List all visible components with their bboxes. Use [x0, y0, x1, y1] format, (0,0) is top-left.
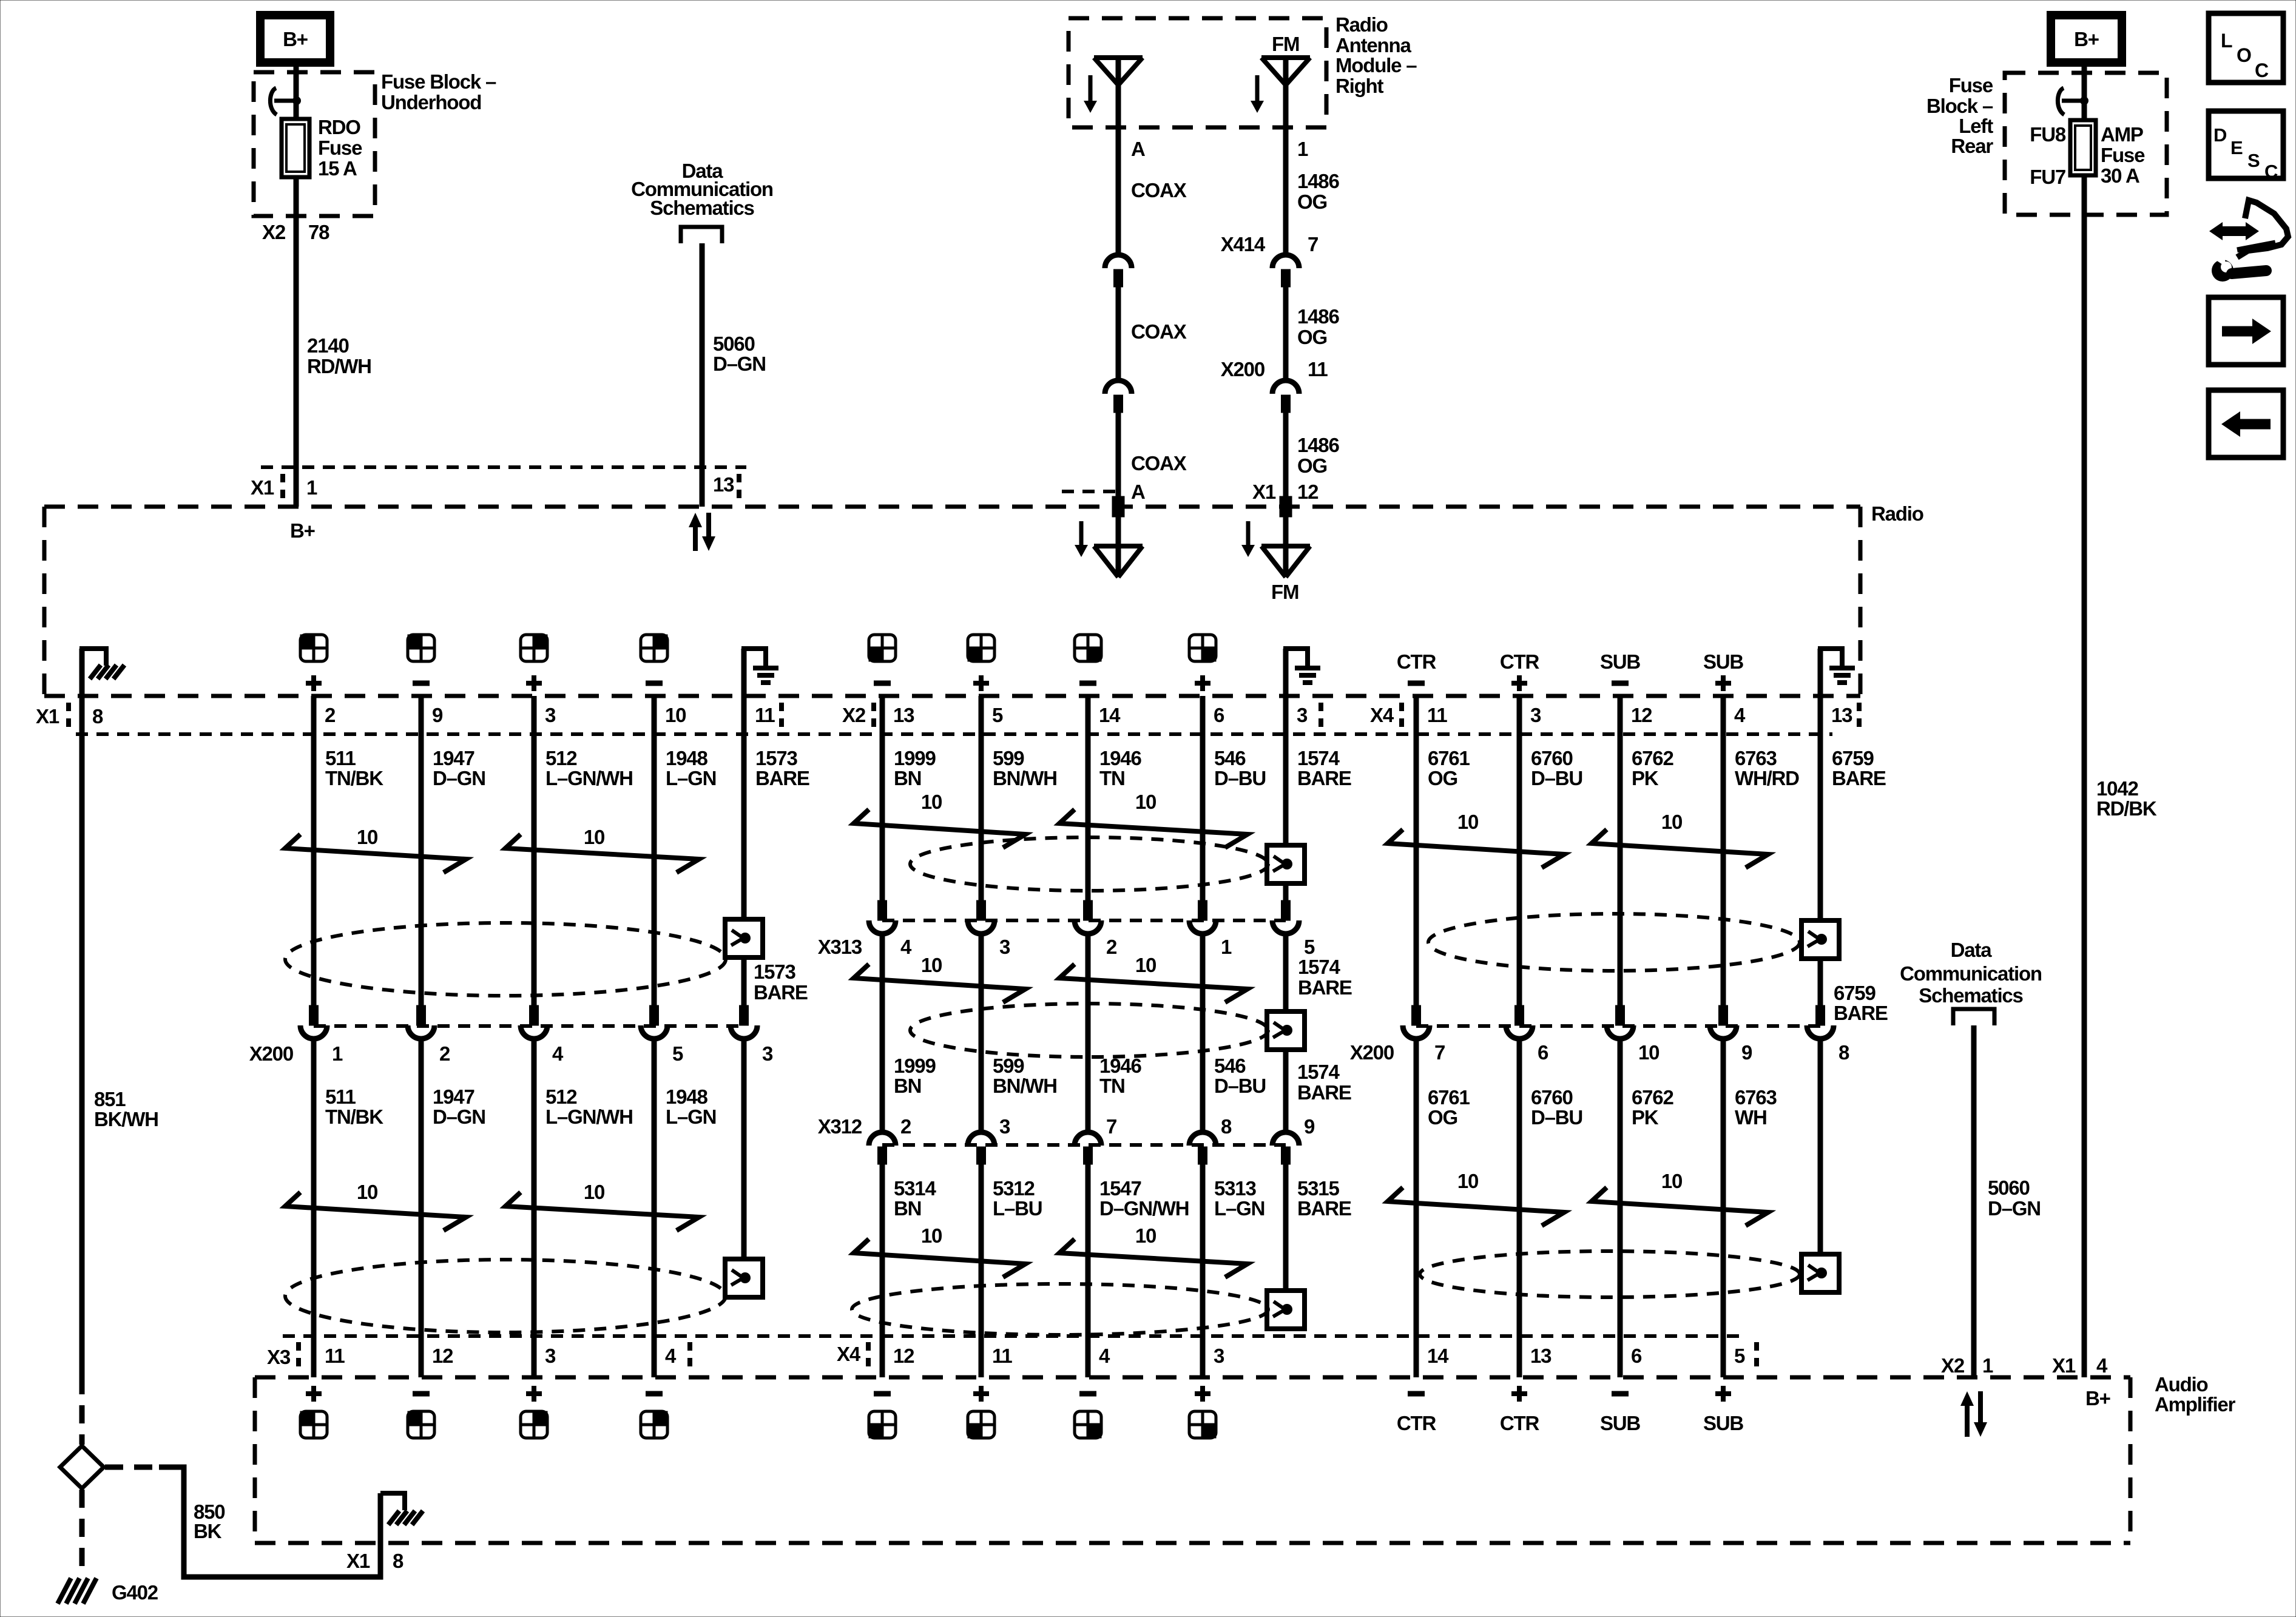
svg-text:Left: Left: [1959, 115, 1993, 137]
svg-text:3: 3: [999, 936, 1010, 958]
left group wires lower: [311, 1039, 317, 1377]
svg-text:Radio: Radio: [1335, 13, 1388, 36]
svg-text:10: 10: [1457, 811, 1478, 833]
svg-text:BARE: BARE: [1298, 976, 1352, 999]
svg-text:B+: B+: [290, 519, 315, 542]
svg-text:L–BU: L–BU: [993, 1197, 1042, 1220]
svg-text:PK: PK: [1632, 1106, 1659, 1129]
svg-text:1486: 1486: [1297, 434, 1339, 456]
svg-text:BARE: BARE: [1297, 1197, 1351, 1220]
svg-text:511: 511: [325, 747, 356, 769]
svg-text:Schematics: Schematics: [1919, 984, 2022, 1007]
svg-text:10: 10: [1638, 1041, 1659, 1064]
svg-text:12: 12: [1631, 704, 1652, 726]
svg-text:3: 3: [545, 1345, 556, 1367]
svg-text:SUB: SUB: [1600, 650, 1640, 673]
svg-text:CTR: CTR: [1397, 1412, 1437, 1434]
svg-text:10: 10: [665, 704, 686, 726]
wire B+ to RDO fuse: [294, 62, 299, 119]
svg-text:COAX: COAX: [1131, 320, 1187, 343]
shield lens middle lower: [852, 1284, 1268, 1335]
entry pin bars: [1112, 496, 1124, 517]
svg-text:4: 4: [900, 936, 912, 958]
svg-text:BN/WH: BN/WH: [993, 1075, 1057, 1097]
shield lens middle mid: [910, 1004, 1268, 1057]
middle group wires lower: [880, 1164, 885, 1377]
wire 1042 RD/BK: [2082, 175, 2087, 1377]
svg-text:BN: BN: [894, 767, 921, 789]
svg-text:6760: 6760: [1531, 1086, 1573, 1109]
ground earth radio pin11: [741, 649, 747, 696]
svg-text:6760: 6760: [1531, 747, 1573, 769]
connector row X200 left: [309, 1005, 319, 1025]
module arrow right: [1255, 75, 1260, 102]
svg-text:D–BU: D–BU: [1531, 1106, 1582, 1129]
svg-text:D–BU: D–BU: [1214, 767, 1266, 789]
svg-text:9: 9: [1304, 1115, 1315, 1138]
svg-text:C: C: [2264, 161, 2278, 182]
svg-text:6761: 6761: [1428, 747, 1470, 769]
svg-text:OG: OG: [1297, 191, 1327, 213]
svg-text:511: 511: [325, 1085, 356, 1108]
svg-text:X1: X1: [36, 705, 59, 727]
svg-text:5060: 5060: [1988, 1176, 2030, 1199]
svg-text:10: 10: [584, 826, 604, 848]
svg-text:10: 10: [1135, 954, 1156, 976]
svg-text:Audio: Audio: [2155, 1373, 2208, 1396]
svg-text:5: 5: [1734, 1345, 1745, 1367]
svg-text:4: 4: [1099, 1345, 1110, 1367]
svg-text:15 A: 15 A: [318, 157, 357, 180]
bus bracket symbol: [681, 227, 722, 243]
svg-text:1948: 1948: [666, 1085, 707, 1108]
svg-text:D–BU: D–BU: [1214, 1075, 1266, 1097]
ground earth radio pin13: [1818, 649, 1823, 696]
svg-text:1947: 1947: [433, 747, 474, 769]
right group wires upper: [1414, 696, 1419, 1005]
svg-text:10: 10: [921, 954, 942, 976]
audio amplifier box outline: [255, 1376, 2130, 1380]
svg-text:AMP: AMP: [2101, 123, 2143, 146]
svg-text:14: 14: [1427, 1345, 1449, 1367]
svg-text:5314: 5314: [894, 1177, 936, 1200]
connector row X313: [878, 900, 887, 920]
svg-text:D–BU: D–BU: [1531, 767, 1582, 789]
svg-text:851: 851: [94, 1088, 126, 1110]
radio arrow FM: [1246, 521, 1251, 546]
svg-text:X1: X1: [251, 476, 274, 499]
svg-text:B+: B+: [2085, 1387, 2110, 1409]
svg-text:1573: 1573: [755, 747, 797, 769]
svg-text:BARE: BARE: [1832, 767, 1886, 789]
svg-text:5: 5: [672, 1042, 683, 1065]
svg-text:D–GN: D–GN: [433, 767, 485, 789]
svg-text:Fuse: Fuse: [2101, 144, 2145, 166]
wire diamond to G402: [79, 1490, 85, 1573]
coax wire FM upper: [1283, 58, 1289, 255]
svg-text:5315: 5315: [1297, 1177, 1339, 1200]
shield box right upper: [1801, 920, 1839, 959]
svg-text:L–GN/WH: L–GN/WH: [545, 767, 633, 789]
icon harness wrench: [2219, 226, 2249, 236]
svg-text:7: 7: [1106, 1115, 1116, 1138]
svg-text:6763: 6763: [1735, 747, 1777, 769]
shield box right lower (terminal): [1801, 1254, 1839, 1292]
fuse block left rear box: [2005, 73, 2167, 215]
svg-text:Schematics: Schematics: [650, 197, 754, 219]
svg-text:11: 11: [1427, 704, 1447, 726]
svg-text:WH: WH: [1735, 1106, 1767, 1129]
shield box middle upper: [1267, 845, 1305, 883]
svg-text:11: 11: [992, 1345, 1012, 1367]
svg-text:1947: 1947: [433, 1085, 474, 1108]
svg-text:BK: BK: [194, 1520, 222, 1542]
svg-text:546: 546: [1214, 1055, 1246, 1077]
twisted pair symbols middle upper: [854, 809, 1025, 848]
svg-text:BN: BN: [894, 1197, 921, 1220]
svg-text:11: 11: [325, 1345, 345, 1367]
svg-text:X4: X4: [1370, 704, 1394, 726]
twisted pair symbols left upper: [285, 834, 466, 873]
svg-text:Underhood: Underhood: [381, 91, 481, 113]
svg-text:6759: 6759: [1834, 982, 1876, 1004]
svg-text:3: 3: [1530, 704, 1541, 726]
svg-text:599: 599: [993, 747, 1024, 769]
svg-text:X200: X200: [1221, 358, 1264, 380]
svg-text:3: 3: [1214, 1345, 1224, 1367]
inline connector coax A row2: [1105, 380, 1132, 394]
shield box X31 left upper: [725, 919, 763, 957]
svg-text:RD/WH: RD/WH: [307, 355, 371, 377]
wire 850 BK: [105, 1465, 159, 1470]
fuse block underhood box: [254, 72, 375, 216]
svg-text:10: 10: [357, 1181, 377, 1203]
svg-text:8: 8: [393, 1550, 403, 1572]
twisted pair symbols right lower: [1388, 1187, 1564, 1226]
antenna symbol FM: [1261, 55, 1310, 60]
inline connector coax A row1: [1105, 255, 1132, 268]
left group wires upper: [311, 696, 317, 1005]
svg-text:COAX: COAX: [1131, 452, 1187, 474]
svg-text:WH/RD: WH/RD: [1735, 767, 1799, 789]
svg-text:BARE: BARE: [755, 767, 809, 789]
twisted pair symbols left lower: [285, 1192, 466, 1230]
shield lens left lower: [285, 1260, 726, 1332]
svg-text:FU8: FU8: [2030, 123, 2066, 146]
svg-text:Fuse Block –: Fuse Block –: [381, 70, 496, 93]
inverted antenna A (radio): [1094, 544, 1143, 549]
switch hook junction (right): [2058, 88, 2064, 115]
svg-text:L: L: [2221, 30, 2232, 52]
svg-text:6759: 6759: [1832, 747, 1874, 769]
svg-text:CTR: CTR: [1500, 650, 1540, 673]
svg-text:X2: X2: [842, 704, 866, 726]
svg-text:D: D: [2213, 124, 2227, 146]
svg-text:COAX: COAX: [1131, 179, 1187, 201]
power feed B+ (right): [2051, 15, 2122, 62]
svg-text:BARE: BARE: [1834, 1002, 1888, 1024]
svg-text:Block –: Block –: [1926, 95, 1993, 117]
svg-text:3: 3: [999, 1115, 1010, 1138]
svg-text:4: 4: [665, 1345, 677, 1367]
svg-text:BARE: BARE: [1297, 1081, 1351, 1104]
svg-text:6: 6: [1631, 1345, 1642, 1367]
svg-text:OG: OG: [1297, 326, 1327, 348]
svg-text:BARE: BARE: [1297, 767, 1351, 789]
coax wire A lower: [1116, 411, 1121, 577]
wire 5060 D-GN (bottom): [1971, 1025, 1977, 1377]
svg-text:1: 1: [1982, 1354, 1993, 1377]
icon arrow right: [2209, 297, 2283, 365]
svg-text:599: 599: [993, 1055, 1024, 1077]
shield lens middle upper: [910, 837, 1268, 891]
shield box left lower (terminal): [725, 1259, 763, 1297]
svg-text:10: 10: [1661, 811, 1682, 833]
coax wire A mid: [1116, 286, 1121, 380]
labels CTR SUB (amp): [1408, 1391, 1425, 1397]
wire 851 BK/WH: [79, 696, 85, 1376]
data arrows inside radio: [693, 525, 698, 551]
fuse RDO 15A symbol: [282, 119, 309, 177]
svg-text:X313: X313: [818, 936, 862, 958]
svg-text:6: 6: [1538, 1041, 1548, 1064]
svg-text:10: 10: [921, 791, 942, 813]
middle group wires mid: [880, 934, 885, 1131]
amp band dotted line: [283, 1334, 1744, 1338]
wire 2140 RD/WH: [294, 177, 299, 507]
svg-text:L–GN: L–GN: [666, 1106, 716, 1128]
svg-text:11: 11: [755, 704, 775, 726]
wire 5060 D-GN (top): [700, 243, 705, 507]
svg-text:5313: 5313: [1214, 1177, 1256, 1200]
svg-text:S: S: [2247, 150, 2260, 171]
svg-text:9: 9: [1741, 1041, 1752, 1064]
svg-text:546: 546: [1214, 747, 1246, 769]
svg-text:1946: 1946: [1099, 747, 1141, 769]
svg-text:X200: X200: [249, 1042, 293, 1065]
svg-text:D–GN/WH: D–GN/WH: [1099, 1197, 1189, 1220]
svg-text:TN: TN: [1099, 1075, 1125, 1097]
svg-text:4: 4: [2096, 1354, 2108, 1377]
svg-text:A: A: [1131, 138, 1145, 160]
shield lens right upper: [1428, 914, 1800, 971]
svg-text:Radio: Radio: [1871, 502, 1923, 525]
svg-text:1574: 1574: [1298, 956, 1340, 978]
svg-text:78: 78: [308, 221, 329, 243]
svg-text:CTR: CTR: [1500, 1412, 1540, 1434]
ground earth radio pin3: [1283, 649, 1289, 696]
svg-text:8: 8: [92, 705, 103, 727]
svg-text:OG: OG: [1297, 454, 1327, 477]
svg-text:1486: 1486: [1297, 170, 1339, 192]
coax wire A upper: [1116, 58, 1121, 255]
svg-text:X200: X200: [1350, 1041, 1394, 1064]
twisted pair symbols middle lower: [854, 1239, 1025, 1277]
svg-text:RD/BK: RD/BK: [2096, 797, 2157, 820]
svg-text:2: 2: [1106, 936, 1117, 958]
svg-text:2: 2: [900, 1115, 911, 1138]
svg-text:30 A: 30 A: [2101, 164, 2139, 187]
svg-text:10: 10: [584, 1181, 604, 1203]
svg-text:6762: 6762: [1632, 1086, 1673, 1109]
svg-text:2: 2: [439, 1042, 450, 1065]
svg-text:10: 10: [1135, 791, 1156, 813]
svg-text:7: 7: [1434, 1041, 1445, 1064]
svg-text:1573: 1573: [754, 960, 795, 983]
svg-text:14: 14: [1099, 704, 1121, 726]
svg-text:O: O: [2237, 44, 2251, 66]
svg-text:3: 3: [762, 1042, 773, 1065]
svg-text:Right: Right: [1335, 75, 1384, 97]
svg-text:1574: 1574: [1297, 1061, 1340, 1083]
svg-text:BN/WH: BN/WH: [993, 767, 1057, 789]
svg-text:X1: X1: [1252, 481, 1276, 503]
speaker icons and polarity (amp): [306, 1391, 322, 1396]
svg-text:1: 1: [1221, 936, 1232, 958]
shield lens right lower: [1420, 1251, 1800, 1297]
right group wires lower: [1414, 1039, 1419, 1377]
svg-text:13: 13: [713, 473, 734, 496]
twisted pair symbols right upper: [1388, 829, 1564, 868]
svg-text:C: C: [2255, 59, 2269, 81]
coax wire FM lower: [1283, 411, 1289, 577]
svg-text:Antenna: Antenna: [1335, 34, 1411, 56]
svg-text:1948: 1948: [666, 747, 707, 769]
svg-text:Rear: Rear: [1951, 135, 1993, 157]
shield lens left upper: [285, 923, 726, 996]
svg-text:Data: Data: [1951, 939, 1993, 961]
svg-text:2140: 2140: [307, 334, 349, 357]
svg-text:D–GN: D–GN: [433, 1106, 485, 1128]
svg-text:D–GN: D–GN: [1988, 1197, 2041, 1220]
svg-text:5: 5: [992, 704, 1003, 726]
svg-text:X2: X2: [262, 221, 286, 243]
svg-text:Fuse: Fuse: [1949, 74, 1993, 96]
svg-text:SUB: SUB: [1703, 1412, 1743, 1434]
svg-text:11: 11: [1308, 358, 1328, 380]
svg-text:10: 10: [1457, 1170, 1478, 1192]
dotted band near antenna entry: [1062, 490, 1116, 493]
inverted antenna FM (radio): [1261, 544, 1310, 549]
radio box outline: [44, 505, 1860, 509]
icon DESC: [2209, 111, 2283, 178]
svg-text:13: 13: [893, 704, 914, 726]
middle group wires upper: [880, 696, 885, 900]
ground chassis radio pin8: [79, 649, 85, 696]
speaker icons and polarity (radio): [300, 635, 314, 648]
svg-text:L–GN: L–GN: [666, 767, 716, 789]
svg-text:TN: TN: [1099, 767, 1125, 789]
svg-text:B+: B+: [2074, 28, 2099, 50]
connector band dotted line (radio top): [261, 465, 746, 469]
shield box middle mid: [1267, 1011, 1305, 1050]
svg-text:BN: BN: [894, 1075, 921, 1097]
svg-text:2: 2: [325, 704, 336, 726]
svg-text:BARE: BARE: [754, 981, 808, 1004]
module arrow left: [1089, 75, 1093, 102]
svg-text:OG: OG: [1428, 767, 1457, 789]
svg-text:1: 1: [332, 1042, 343, 1065]
svg-text:Communication: Communication: [1900, 962, 2042, 985]
svg-text:X3: X3: [267, 1346, 291, 1368]
svg-text:13: 13: [1530, 1345, 1551, 1367]
svg-text:X414: X414: [1221, 233, 1266, 255]
svg-text:10: 10: [1661, 1170, 1682, 1192]
inline connector X200 pin 11 (coax): [1272, 380, 1299, 394]
ground G402: [58, 1578, 71, 1604]
svg-text:7: 7: [1308, 233, 1318, 255]
svg-text:SUB: SUB: [1600, 1412, 1640, 1434]
svg-text:1: 1: [306, 476, 317, 499]
svg-text:4: 4: [1734, 704, 1746, 726]
svg-text:8: 8: [1221, 1115, 1232, 1138]
svg-text:512: 512: [545, 1085, 577, 1108]
svg-text:RDO: RDO: [318, 116, 360, 138]
svg-text:12: 12: [893, 1345, 914, 1367]
svg-text:1999: 1999: [894, 1055, 936, 1077]
svg-text:1: 1: [1297, 138, 1308, 160]
switch hook junction: [270, 88, 277, 115]
svg-text:5060: 5060: [713, 333, 755, 355]
svg-text:10: 10: [1135, 1224, 1156, 1247]
svg-text:L–GN/WH: L–GN/WH: [545, 1106, 633, 1128]
svg-text:OG: OG: [1428, 1106, 1457, 1129]
svg-text:X312: X312: [818, 1115, 862, 1138]
svg-text:X1: X1: [346, 1550, 370, 1572]
svg-text:12: 12: [1297, 481, 1319, 503]
svg-text:512: 512: [545, 747, 577, 769]
svg-text:1999: 1999: [894, 747, 936, 769]
svg-text:10: 10: [357, 826, 377, 848]
radio antenna module box: [1069, 18, 1326, 127]
coax wire FM mid: [1283, 286, 1289, 380]
svg-text:G402: G402: [112, 1581, 158, 1604]
svg-text:3: 3: [1297, 704, 1308, 726]
svg-text:L–GN: L–GN: [1214, 1197, 1264, 1220]
shield box middle lower (terminal): [1267, 1291, 1305, 1329]
connector row X312: [869, 1132, 896, 1146]
svg-text:1547: 1547: [1099, 1177, 1141, 1200]
svg-text:9: 9: [432, 704, 443, 726]
data arrows inside amp: [1965, 1403, 1970, 1437]
svg-text:6763: 6763: [1735, 1086, 1777, 1109]
icon LOC: [2209, 13, 2283, 83]
svg-text:BK/WH: BK/WH: [94, 1108, 158, 1130]
svg-text:SUB: SUB: [1703, 650, 1743, 673]
svg-text:1042: 1042: [2096, 777, 2138, 800]
power feed B+ (left): [260, 15, 330, 62]
svg-text:TN/BK: TN/BK: [325, 767, 383, 789]
svg-text:X1: X1: [2052, 1354, 2076, 1377]
inline connector X414 pin7: [1272, 255, 1299, 268]
svg-text:13: 13: [1831, 704, 1852, 726]
wire B+ to AMP fuse: [2082, 62, 2087, 120]
svg-text:B+: B+: [283, 28, 308, 50]
svg-text:FM: FM: [1271, 581, 1298, 603]
svg-text:8: 8: [1838, 1041, 1849, 1064]
svg-text:CTR: CTR: [1397, 650, 1437, 673]
svg-text:4: 4: [552, 1042, 564, 1065]
svg-text:10: 10: [921, 1224, 942, 1247]
svg-text:FM: FM: [1272, 33, 1299, 55]
fuse AMP 30A symbol: [2070, 120, 2096, 175]
svg-text:E: E: [2230, 137, 2243, 158]
svg-text:6761: 6761: [1428, 1086, 1470, 1109]
svg-text:5: 5: [1304, 936, 1315, 958]
svg-text:Module –: Module –: [1335, 54, 1417, 76]
svg-text:1574: 1574: [1297, 747, 1340, 769]
svg-text:FU7: FU7: [2030, 166, 2065, 188]
